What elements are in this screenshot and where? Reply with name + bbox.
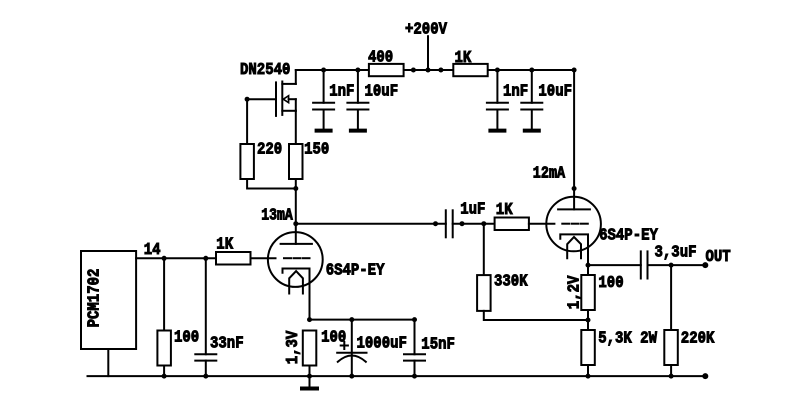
svg-text:330K: 330K: [494, 273, 528, 292]
DAC PCM1702 box: [81, 251, 136, 349]
node bypass tap dots right: [495, 68, 534, 73]
tube V1 anode plate: [281, 243, 312, 245]
label + polarity: [341, 342, 348, 349]
wire 330K return: [484, 311, 588, 320]
node V1 anode junction dot: [293, 221, 298, 226]
capacitor 1uF coupling: [446, 210, 453, 237]
svg-text:1,2V: 1,2V: [565, 276, 584, 310]
tube V1 cathode: [283, 269, 310, 320]
svg-text:1nF: 1nF: [503, 83, 528, 102]
tube V1 grid: [284, 257, 310, 259]
wire 100 shunt drop: [163, 258, 165, 330]
capacitor 3,3uF output: [641, 251, 648, 278]
capacitor 10uF (right B+ bypass): [521, 70, 542, 131]
wire 1K to V1 grid: [251, 257, 276, 259]
transistor DN2540 gate lead wire: [247, 98, 276, 100]
wire 220 bottom elbow: [247, 179, 296, 189]
capacitor 15nF: [404, 320, 425, 377]
node gate junction dot: [245, 97, 250, 102]
wire 5,3K to rail: [587, 365, 589, 376]
svg-text:OUT: OUT: [706, 248, 731, 267]
wire grid leak drop: [483, 224, 485, 275]
node 330K return junction dot: [586, 318, 591, 323]
resistor 1K grid stopper V2: [495, 201, 529, 230]
capacitor 1nF (right B+ bypass): [487, 70, 508, 131]
node rail end terminal: [702, 373, 708, 379]
transistor U1 DN2540: [276, 70, 296, 144]
wire 1K to V2 grid: [529, 223, 555, 225]
resistor 400 (B+ filter): [368, 49, 404, 77]
node pin14 junction dots: [162, 256, 209, 261]
wire CCS to V1 anode: [295, 189, 297, 244]
tube V2 cathode: [560, 234, 588, 265]
wire 100 to 5,3K: [587, 310, 589, 330]
node coupling dot left: [433, 221, 438, 226]
resistor 5,3K 2W: [581, 330, 657, 366]
capacitor 1000uF electrolytic: [337, 320, 366, 377]
wire coupling cap to 1K: [453, 223, 495, 225]
capacitor 33nF: [195, 258, 216, 376]
svg-text:1000uF: 1000uF: [357, 335, 407, 354]
svg-text:220K: 220K: [681, 330, 715, 349]
tube V1 heater: [289, 271, 303, 293]
svg-text:6S4P-EY: 6S4P-EY: [326, 262, 385, 281]
tube V2 6S4P-EV envelope: [546, 197, 601, 252]
svg-text:1K: 1K: [455, 49, 473, 68]
wire 220K drop: [670, 265, 672, 330]
svg-text:1,3V: 1,3V: [284, 331, 303, 365]
wire output cap to OUT: [648, 264, 706, 266]
wire gate to 220 resistor: [246, 99, 248, 144]
svg-text:12mA: 12mA: [533, 165, 566, 184]
svg-text:1K: 1K: [496, 201, 514, 220]
node CCS output junction dot: [293, 186, 298, 191]
svg-text:PCM1702: PCM1702: [86, 269, 105, 328]
wire PCM1702 ground lead: [107, 349, 109, 376]
svg-text:1nF: 1nF: [329, 83, 354, 102]
svg-text:6S4P-EY: 6S4P-EY: [599, 227, 658, 246]
svg-text:10uF: 10uF: [365, 83, 399, 102]
svg-text:1K: 1K: [216, 236, 234, 255]
capacitor 10uF (left B+ bypass): [347, 70, 368, 131]
resistor 220: [240, 141, 282, 180]
node 15nF corner dot: [412, 317, 417, 322]
svg-text:100: 100: [174, 329, 199, 348]
svg-text:14: 14: [144, 241, 161, 260]
svg-text:10uF: 10uF: [538, 83, 572, 102]
resistor 220K load: [664, 330, 715, 366]
tube V2 anode plate: [558, 208, 590, 210]
node +200V supply lead: [427, 36, 429, 70]
node ground rail junction dots: [162, 374, 674, 379]
wire V1 cathode bus: [310, 319, 415, 321]
tube V2 grid: [562, 223, 588, 225]
wire B+ down to V2 anode: [573, 70, 575, 209]
svg-text:13mA: 13mA: [261, 207, 293, 226]
wire cathode to 100: [587, 265, 589, 275]
wire 220K to rail: [670, 365, 672, 376]
svg-text:DN2540: DN2540: [240, 61, 290, 80]
resistor 330K grid leak: [477, 273, 528, 311]
svg-text:400: 400: [368, 49, 393, 68]
node bypass tap dots left: [321, 68, 360, 73]
resistor 100 cathode V2: [581, 274, 623, 310]
node coupling dots right: [460, 221, 487, 226]
node +200V tap junction dots: [411, 68, 444, 73]
wire V2 cathode to output cap: [588, 264, 641, 266]
svg-text:150: 150: [304, 141, 329, 160]
svg-text:100: 100: [598, 274, 623, 293]
resistor 100 shunt: [157, 329, 199, 366]
resistor 1K (B+ filter): [453, 49, 487, 76]
resistor 150: [289, 141, 329, 180]
wire ground rail: [88, 375, 706, 377]
svg-text:3,3uF: 3,3uF: [655, 244, 697, 263]
node V1 cathode junction dot: [307, 317, 312, 322]
node 1000uF tap dot: [349, 317, 354, 322]
wire V1 anode to coupling cap: [296, 223, 446, 225]
svg-text:15nF: 15nF: [421, 336, 455, 355]
svg-text:220: 220: [257, 141, 282, 160]
wire 100 shunt to ground rail: [163, 366, 165, 377]
node OUT terminal: [702, 262, 708, 268]
node 220K tap dot: [669, 263, 674, 268]
wire cathode R to rail: [309, 366, 311, 377]
capacitor 1nF (left B+ bypass): [313, 70, 334, 131]
node V2 anode junction dot: [572, 186, 577, 191]
svg-text:5,3K 2W: 5,3K 2W: [598, 330, 657, 349]
wire 150 bottom: [295, 179, 297, 189]
wire top +200V rail: [296, 69, 574, 71]
wire pin14 to grid network: [136, 257, 216, 259]
svg-text:1uF: 1uF: [460, 201, 485, 220]
tube V2 heater: [567, 237, 581, 258]
node V2 cathode junction dot: [586, 263, 591, 268]
resistor 100 cathode V1: [303, 331, 317, 366]
svg-text:+200V: +200V: [405, 21, 447, 40]
tube V1 6S4P-EV envelope: [268, 232, 323, 287]
ground symbol: [302, 376, 317, 388]
node rail corner dot: [572, 68, 577, 73]
resistor 1K grid V1: [216, 236, 251, 265]
svg-text:33nF: 33nF: [210, 335, 244, 354]
